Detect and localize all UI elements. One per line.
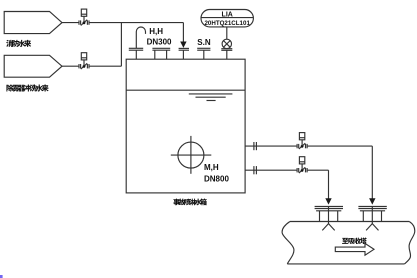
- svg-text:M,H: M,H: [204, 163, 219, 172]
- wire: tank to valve V3: [245, 145, 297, 147]
- blue artifact dot bottom-left corner: [0, 275, 3, 278]
- svg-text:20HTQ21CL101: 20HTQ21CL101: [204, 20, 250, 27]
- flow arrow into duct nozzle A: [325, 198, 331, 204]
- wire: left drop to duct nozzle A: [328, 170, 330, 198]
- vent gooseneck nozzle: [129, 27, 146, 59]
- svg-text:S.N: S.N: [197, 38, 211, 47]
- duct to absorber: top edge: [290, 221, 409, 223]
- svg-text:H,H: H,H: [149, 27, 163, 36]
- spare nozzle S.N: [197, 48, 210, 59]
- label: 事故喷淋水箱 (emergency spray water tank) caption: [173, 199, 207, 206]
- level instrument nozzle with local gauge: [221, 27, 232, 59]
- label: 除雾器冲洗水来 (demister flushing water): [6, 84, 48, 91]
- wire: right drop to duct nozzle B: [371, 146, 373, 199]
- instrument bubble LIA 20HTQ21CL101: [201, 10, 253, 27]
- svg-text:DN300: DN300: [147, 38, 172, 47]
- flow arrow into duct nozzle B: [369, 198, 375, 204]
- wire: flag1 to valve V1: [62, 22, 79, 24]
- manhole M,H DN800: [171, 136, 212, 174]
- valve V2 (butterfly valve with handwheel): [79, 53, 89, 69]
- flow direction hollow arrow: [335, 243, 374, 255]
- duct left break line: [282, 222, 294, 264]
- tank top band line: [126, 89, 245, 91]
- tank: emergency spray water tank: [126, 59, 245, 193]
- wire: valve V2 to riser junction: [89, 65, 121, 67]
- wire: riser joining flag2 line into flag1 header: [120, 23, 122, 67]
- wire: flag2 to valve V2: [62, 65, 79, 67]
- inlet flag: fire water: [4, 12, 62, 34]
- wire: tank to valve V4: [245, 169, 297, 171]
- wire: valve V3 to right drop: [307, 145, 372, 147]
- valve V3 (butterfly valve with handwheel): [297, 133, 307, 149]
- tank inlet nozzle flange: [179, 48, 189, 59]
- inlet flag: demister flushing water: [4, 55, 62, 77]
- flow arrow into tank inlet: [180, 42, 186, 48]
- wire: valve V4 to left drop: [307, 169, 328, 171]
- wire: drop into tank inlet nozzle: [182, 23, 184, 43]
- wire: valve V1 to tank inlet drop: [89, 22, 183, 24]
- svg-text:LIA: LIA: [222, 11, 233, 18]
- duct bottom edge: [287, 263, 404, 265]
- svg-text:DN800: DN800: [204, 175, 229, 184]
- duct right break line: [405, 222, 415, 264]
- tank outlet nozzle upper flange: [254, 142, 257, 150]
- valve V4 (butterfly valve with handwheel): [297, 157, 307, 173]
- duct nozzle A (spray inlet on duct): [315, 207, 343, 231]
- duct nozzle B (spray inlet on duct): [358, 207, 386, 231]
- label: 至吸收塔 (to absorber) label: [342, 238, 367, 245]
- tank outlet nozzle lower flange: [254, 166, 257, 174]
- valve V1 (butterfly valve with handwheel): [79, 9, 89, 25]
- overflow nozzle DN300: [152, 48, 170, 59]
- liquid level mark: [189, 94, 233, 101]
- label: 消防水来 (fire water supply): [6, 40, 31, 47]
